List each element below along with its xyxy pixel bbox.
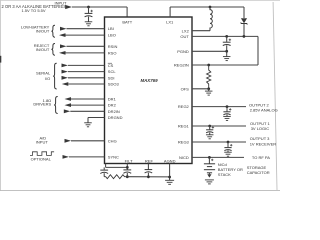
label 3V LOGIC: [251, 126, 270, 131]
capacitor C3 reg2: [223, 107, 231, 117]
pin PGND label: [177, 49, 189, 54]
wire OUT corner: [192, 36, 258, 65]
arrow SDO3: [62, 82, 69, 86]
ground REG2 cap: [223, 116, 231, 120]
wire CS: [68, 64, 105, 66]
capacitor C7 sync: [100, 167, 108, 176]
wire DR2IN: [70, 110, 104, 112]
svg-text:DR2IN: DR2IN: [108, 109, 120, 114]
pin REG2IN label: [174, 63, 189, 68]
label IN/OUT lb: [36, 28, 50, 33]
label IN/OUT rej: [36, 47, 50, 52]
wire REG1: [192, 125, 246, 127]
arrow CHG: [65, 139, 72, 143]
svg-text:CHG: CHG: [108, 138, 117, 143]
svg-text:INPUT: INPUT: [36, 140, 49, 145]
pin AGND label: [164, 158, 176, 163]
brace low-battery: [51, 25, 55, 37]
ground input cap: [85, 22, 93, 26]
capacitor C1 input: [85, 7, 93, 22]
pin NICD label: [179, 155, 189, 160]
page edge line left: [0, 0, 1, 191]
wire diode to OUT: [243, 24, 245, 37]
pin DRGND label: [108, 115, 123, 120]
pin LX2 label: [182, 29, 190, 34]
input arrow: [65, 5, 72, 9]
svg-text:SERIAL: SERIAL: [36, 71, 51, 76]
svg-text:CS: CS: [108, 63, 114, 68]
wire LX1 rail: [170, 7, 244, 17]
label TO RF PA: [252, 155, 270, 160]
ground REG1 cap: [206, 135, 214, 139]
svg-text:SYNC: SYNC: [108, 154, 119, 159]
pin REG3 label: [178, 140, 190, 145]
svg-text:SDI: SDI: [108, 75, 115, 80]
resistor R2: [104, 175, 127, 179]
label 1.8ohm: [43, 98, 52, 103]
capacitor C6 filt: [123, 170, 131, 173]
wire rail2: [127, 176, 169, 178]
clock waveform: [30, 152, 54, 156]
svg-text:3V LOGIC: 3V LOGIC: [251, 126, 270, 131]
svg-text:REG1: REG1: [178, 124, 190, 129]
svg-text:TO RF PA: TO RF PA: [252, 155, 270, 160]
svg-text:OUTPUT 3: OUTPUT 3: [250, 136, 270, 141]
page edge line bottom: [0, 189, 280, 191]
pin DR2IN label: [108, 109, 120, 114]
wire rail1: [106, 166, 128, 168]
wire OFS: [192, 88, 209, 90]
svg-text:1.5V TO 5.5V: 1.5V TO 5.5V: [21, 8, 45, 13]
wire DR1: [71, 98, 105, 100]
arrow CS: [62, 64, 69, 68]
ground REG3 cap: [224, 152, 232, 156]
node OFS junction: [207, 87, 210, 90]
svg-text:OPTIONAL: OPTIONAL: [31, 157, 52, 162]
label OUTPUT 3: [250, 136, 270, 141]
pin REG2 label: [178, 104, 190, 109]
arrow SYNC: [63, 155, 70, 159]
arrow DR2: [65, 103, 72, 107]
label OPTIONAL: [31, 157, 52, 162]
wire RSO: [66, 52, 105, 54]
label I/O: [45, 76, 50, 81]
arrow DR2IN: [64, 109, 71, 113]
node inductor top: [209, 6, 212, 9]
svg-text:I/O: I/O: [45, 76, 50, 81]
wire RSIN: [67, 45, 105, 47]
node REG2 junction: [226, 105, 229, 108]
page edge line top: [0, 0, 280, 1]
wire DR2: [71, 104, 105, 106]
arrow SCL: [62, 70, 69, 74]
arrow DR1: [65, 97, 72, 101]
pin LBO label: [108, 33, 116, 38]
node FILT rail2: [126, 175, 129, 178]
pin SDI label: [108, 75, 115, 80]
pin REF label: [145, 158, 154, 163]
ground OFS: [205, 91, 213, 95]
pin SYNC label: [108, 154, 119, 159]
arrow RSIN: [60, 44, 67, 48]
label LOW-BATTERY: [21, 25, 50, 30]
svg-text:REF: REF: [145, 158, 154, 163]
svg-text:BATT: BATT: [122, 19, 132, 24]
pin REG1 label: [178, 124, 190, 129]
node diode OUT junction: [243, 35, 246, 38]
wire LBI: [67, 28, 105, 30]
svg-text:REG3: REG3: [178, 140, 190, 145]
wire LBO: [66, 34, 105, 36]
wire REG3: [192, 141, 246, 143]
pin CHG label: [108, 138, 117, 143]
svg-text:LBI: LBI: [108, 26, 114, 31]
node PGND junction: [225, 50, 228, 53]
svg-text:2.85V ANALOG: 2.85V ANALOG: [250, 108, 278, 113]
svg-text:MAX769: MAX769: [140, 78, 158, 83]
wire OFS gnd stub: [208, 89, 210, 91]
node FILT rail1: [126, 166, 129, 169]
node NICD junction: [208, 156, 211, 159]
label 2.85V ANALOG: [250, 108, 278, 113]
arrow LBO: [59, 33, 66, 37]
wire FILT drop: [126, 164, 128, 177]
pin BATT label: [122, 19, 132, 24]
wire SDO3: [68, 83, 104, 85]
pin OUT label: [180, 34, 189, 39]
svg-text:FILT: FILT: [125, 158, 133, 163]
label A/D: [40, 136, 47, 141]
label NiCd: [218, 162, 227, 167]
svg-text:1V RECEIVER: 1V RECEIVER: [250, 141, 277, 146]
wire SYNC: [69, 156, 105, 158]
svg-text:STACK: STACK: [218, 172, 231, 177]
label MAX769: [140, 78, 158, 83]
pin DR1 label: [108, 97, 117, 102]
wire REF drop: [147, 164, 149, 177]
page edge mark left: [0, 56, 1, 63]
svg-text:LX2: LX2: [182, 29, 190, 34]
svg-text:OUT: OUT: [180, 34, 189, 39]
brace serial: [53, 63, 57, 89]
wire SDI: [68, 77, 105, 79]
svg-text:OFS: OFS: [181, 86, 190, 91]
resistor R1: [207, 65, 211, 89]
label STACK: [218, 172, 231, 177]
page edge line right: [273, 2, 277, 190]
label OUTPUT 2: [249, 102, 269, 107]
node OUT cap junction: [225, 35, 228, 38]
svg-text:REG2: REG2: [178, 104, 190, 109]
wire CHG: [71, 140, 105, 142]
node input cap junction: [87, 6, 90, 9]
svg-text:IN/OUT: IN/OUT: [36, 28, 50, 33]
ground DRGND: [84, 123, 92, 127]
wire NICD: [192, 156, 244, 158]
svg-text:REG2IN: REG2IN: [174, 63, 189, 68]
wire PGND: [192, 50, 227, 52]
wire BATT drop: [126, 7, 128, 18]
node REF rail2: [147, 175, 150, 178]
capacitor C8 ref: [145, 170, 153, 173]
ground PGND: [223, 57, 231, 61]
label REJECT: [34, 43, 50, 48]
svg-text:SCL: SCL: [108, 69, 117, 74]
svg-text:NICD: NICD: [179, 155, 189, 160]
node REG1 junction: [208, 125, 211, 128]
svg-text:RSO: RSO: [108, 50, 117, 55]
brace reject: [51, 44, 55, 56]
pin OFS label: [181, 86, 190, 91]
wire SCL: [68, 71, 105, 73]
label INPUT ad: [36, 140, 49, 145]
battery BT1 NiCd stack: [204, 157, 215, 177]
label 1.5V TO 5.5V: [21, 8, 45, 13]
pin SDO3 label: [108, 82, 120, 87]
diode D1: [241, 18, 247, 25]
brace drivers: [54, 97, 58, 114]
svg-text:AGND: AGND: [164, 158, 176, 163]
wire DRGND: [88, 118, 105, 123]
arrow SDI: [62, 76, 69, 80]
label SERIAL: [36, 71, 51, 76]
wire diode drop: [243, 7, 245, 18]
pin CS label: [108, 63, 114, 68]
label CAPACITOR: [247, 170, 270, 175]
pin SCL label: [108, 69, 117, 74]
label 1V RECEIVER: [250, 141, 277, 146]
svg-text:DR1: DR1: [108, 97, 117, 102]
svg-text:CAPACITOR: CAPACITOR: [247, 170, 270, 175]
wire REG2: [192, 106, 246, 108]
svg-text:LX1: LX1: [166, 19, 174, 24]
inductor L1: [210, 7, 212, 31]
pin RSIN label: [108, 44, 118, 49]
svg-text:PGND: PGND: [177, 49, 189, 54]
pin RSO label: [108, 50, 117, 55]
wire OUT: [192, 35, 258, 37]
ground AGND: [165, 180, 174, 184]
svg-text:DR2: DR2: [108, 103, 117, 108]
label BATTERY OR: [218, 167, 243, 172]
capacitor C2 out: [223, 36, 231, 51]
svg-text:DRIVERS: DRIVERS: [33, 102, 51, 107]
wire input rail: [72, 6, 127, 8]
capacitor C5 reg3: [224, 142, 232, 152]
node REG2IN junction: [207, 64, 210, 67]
svg-text:RSIN: RSIN: [108, 44, 118, 49]
pin LBI label: [108, 26, 114, 31]
label STORAGE: [247, 165, 267, 170]
wire PGND gnd stub: [226, 51, 228, 56]
svg-text:SDO3: SDO3: [108, 82, 120, 87]
wire LX2: [192, 30, 210, 32]
ground battery: [205, 180, 214, 184]
svg-text:DRGND: DRGND: [108, 115, 123, 120]
capacitor C4 reg1: [206, 126, 214, 135]
arrow LBI: [60, 27, 67, 31]
label OUTPUT 1: [250, 121, 270, 126]
wire corner stub: [105, 164, 107, 168]
label DRIVERS: [33, 102, 51, 107]
wire AGND drop: [169, 164, 171, 181]
label 2 OR 3 AA ALKALINE BATTERIES: [2, 4, 67, 9]
pin FILT label: [125, 158, 133, 163]
node AGND rail2: [168, 176, 171, 179]
label INPUT: [55, 1, 68, 6]
pin LX1 label: [166, 19, 174, 24]
svg-text:IN/OUT: IN/OUT: [36, 47, 50, 52]
arrow RSO: [59, 51, 66, 55]
op-amp U1 MAX769 box: [105, 17, 193, 164]
pin DR2 label: [108, 103, 117, 108]
svg-text:LBO: LBO: [108, 33, 116, 38]
node REG3 junction: [227, 141, 230, 144]
